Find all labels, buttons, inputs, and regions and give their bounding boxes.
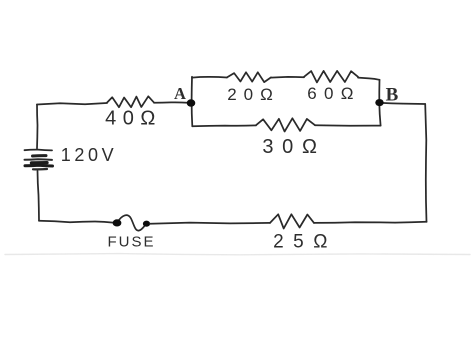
battery V1 plate long 3	[25, 164, 53, 168]
scan streak (faint)	[5, 254, 470, 255]
wire box bottom segment right	[315, 124, 381, 127]
wire bottom-left to fuse	[39, 221, 113, 223]
wire 25-ohm to bottom-right corner	[314, 222, 427, 223]
wire box left vertical	[191, 77, 194, 126]
resistor R5 25-ohm zigzag	[270, 214, 314, 228]
svg-text:25Ω: 25Ω	[273, 232, 337, 253]
wire 20-ohm to 60-ohm	[271, 76, 304, 79]
node B junction dot	[375, 99, 383, 106]
battery V1 plate long 1	[25, 149, 53, 152]
wire 60-ohm to box top-right	[358, 78, 380, 80]
wire left vertical upper	[36, 105, 39, 149]
wire node B to right vertical	[381, 103, 425, 104]
svg-text:60Ω: 60Ω	[307, 84, 361, 103]
wire right vertical	[425, 104, 426, 222]
svg-text:B: B	[386, 85, 399, 106]
wire box top-left segment	[192, 76, 227, 79]
svg-text:FUSE: FUSE	[107, 234, 155, 251]
wire fuse to 25-ohm	[150, 223, 270, 224]
resistor R1 40-ohm zigzag	[107, 96, 154, 107]
resistor R2 20-ohm zigzag	[227, 72, 271, 82]
wire box right vertical	[379, 80, 380, 126]
svg-text:40Ω: 40Ω	[105, 108, 162, 130]
svg-text:30Ω: 30Ω	[262, 136, 325, 158]
battery V1 plate short 1	[33, 154, 47, 157]
fuse F1 element	[117, 215, 147, 230]
svg-text:20Ω: 20Ω	[227, 85, 280, 104]
fuse F1 right terminal dot	[143, 221, 150, 227]
resistor R4 30-ohm zigzag	[256, 118, 315, 131]
battery V1 plate long 2	[25, 158, 53, 161]
svg-text:A: A	[174, 84, 186, 103]
battery V1 plate short 2	[32, 161, 48, 165]
wire 40-ohm to node A	[154, 101, 188, 103]
wire box bottom segment left	[192, 124, 256, 127]
fuse F1 left terminal dot	[113, 219, 122, 226]
wire left vertical lower	[38, 171, 40, 221]
node A junction dot	[187, 99, 196, 106]
svg-text:120V: 120V	[61, 145, 117, 165]
wire top-left segment	[37, 103, 107, 105]
resistor R3 60-ohm zigzag	[304, 71, 358, 83]
battery V1 plate short 3	[33, 168, 47, 171]
